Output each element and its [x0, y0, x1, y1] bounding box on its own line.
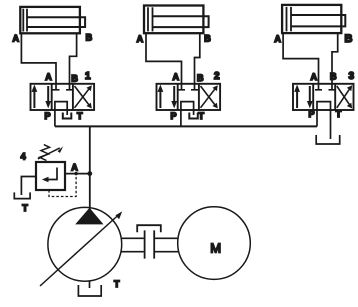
valve U3 port B blocked stub	[329, 84, 336, 90]
svg-text:A: A	[71, 163, 78, 173]
cylinder 3 rod	[291, 15, 345, 26]
valve U2 crossed arrows	[201, 85, 218, 108]
shaft motor side	[155, 238, 179, 251]
valve U1 crossed arrows	[75, 85, 92, 108]
relief valve 4 adjustment arrow	[38, 146, 63, 159]
cylinder 1 barrel	[20, 7, 80, 33]
valve U3 body	[293, 84, 354, 110]
wire cylinder2 A to valve2 A	[146, 33, 182, 84]
pilot dashed wire	[49, 175, 76, 197]
shaft pump side	[121, 238, 144, 251]
pressure bus wire	[55, 125, 317, 127]
wire relief valve to pressure line	[65, 173, 90, 175]
tank symbol relief valve	[14, 192, 30, 198]
wire cylinder1 A to valve1 A	[21, 33, 56, 84]
svg-text:B: B	[330, 72, 337, 82]
svg-text:1: 1	[85, 71, 91, 82]
wire cylinder2 B to valve2 B	[195, 33, 200, 84]
valve U1 body	[31, 84, 95, 110]
svg-text:T: T	[114, 279, 120, 289]
valve U2 P-T tandem path and legs	[181, 102, 194, 127]
svg-text:2: 2	[214, 71, 220, 82]
svg-text:A: A	[274, 34, 281, 44]
coupling bracket	[137, 225, 161, 232]
cylinder 3 barrel	[282, 5, 341, 33]
svg-text:B: B	[71, 74, 78, 84]
svg-text:M: M	[210, 241, 221, 256]
svg-text:B: B	[345, 33, 353, 45]
wire bus to pump	[89, 126, 91, 209]
coupling bars	[145, 230, 155, 258]
svg-text:B: B	[204, 34, 211, 44]
cylinder 2 rod	[153, 16, 209, 27]
svg-text:T: T	[336, 109, 342, 119]
relief valve 4 body	[36, 162, 65, 190]
wire relief valve to tank	[21, 177, 36, 196]
valve U2 left-box down arrow	[171, 86, 177, 108]
valve U1 port B blocked stub	[66, 84, 73, 90]
tank symbol under valve U2	[189, 113, 198, 119]
svg-text:T: T	[22, 203, 28, 213]
svg-text:4: 4	[21, 152, 26, 162]
motor M1 circle	[178, 207, 251, 280]
valve U3 left-box down arrow	[307, 86, 313, 108]
svg-text:A: A	[311, 72, 318, 82]
svg-text:A: A	[13, 34, 20, 44]
cylinder 2 barrel	[144, 6, 203, 34]
valve U2 body	[157, 84, 221, 110]
svg-text:A: A	[137, 34, 144, 44]
svg-text:A: A	[45, 72, 52, 82]
wire cylinder1 B to valve1 B	[70, 33, 77, 84]
cylinder 3 piston	[287, 7, 292, 31]
svg-text:T: T	[199, 111, 205, 121]
cylinder 1 rod	[27, 17, 85, 27]
valve U1 left-box up arrow	[32, 85, 38, 109]
relief valve 4 spring	[40, 145, 50, 161]
wire cylinder3 B to valve3 B	[332, 33, 338, 84]
valve U3 crossed arrows	[337, 85, 352, 108]
valve U3 left-box up arrow	[294, 85, 300, 109]
tank symbol pump	[78, 285, 101, 296]
svg-text:B: B	[86, 33, 93, 43]
tank symbol under valve U1	[63, 113, 72, 119]
valve U3 P-T tandem path and legs	[317, 102, 331, 139]
svg-text:P: P	[45, 111, 51, 121]
cylinder 2 piston	[148, 7, 153, 31]
valve U2 left-box up arrow	[158, 85, 164, 109]
pump P1 circle	[48, 207, 122, 281]
valve U1 P-T tandem path and legs	[55, 102, 67, 127]
pump P1 flow triangle	[75, 208, 103, 225]
svg-text:B: B	[197, 73, 204, 83]
junction node pump line	[87, 171, 92, 176]
valve U1 port A blocked stub	[53, 84, 60, 90]
cylinder 1 piston	[23, 9, 27, 32]
pump P1 variable displacement arrow	[40, 211, 122, 286]
relief valve 4 internal arrow	[42, 168, 57, 183]
junction node pilot	[74, 172, 77, 175]
valve U2 port A blocked stub	[178, 84, 185, 90]
pump P1 drain wire	[89, 281, 91, 288]
valve U2 port B blocked stub	[191, 84, 198, 90]
svg-text:P: P	[309, 109, 315, 119]
wire cylinder3 A to valve3 A	[283, 33, 318, 84]
valve U1 left-box down arrow	[45, 86, 51, 108]
valve U3 port A blocked stub	[315, 84, 322, 90]
svg-text:3: 3	[349, 71, 355, 82]
svg-text:P: P	[171, 111, 177, 121]
svg-text:T: T	[77, 111, 83, 121]
svg-text:A: A	[173, 72, 180, 82]
tank symbol under valve U3	[316, 135, 340, 144]
